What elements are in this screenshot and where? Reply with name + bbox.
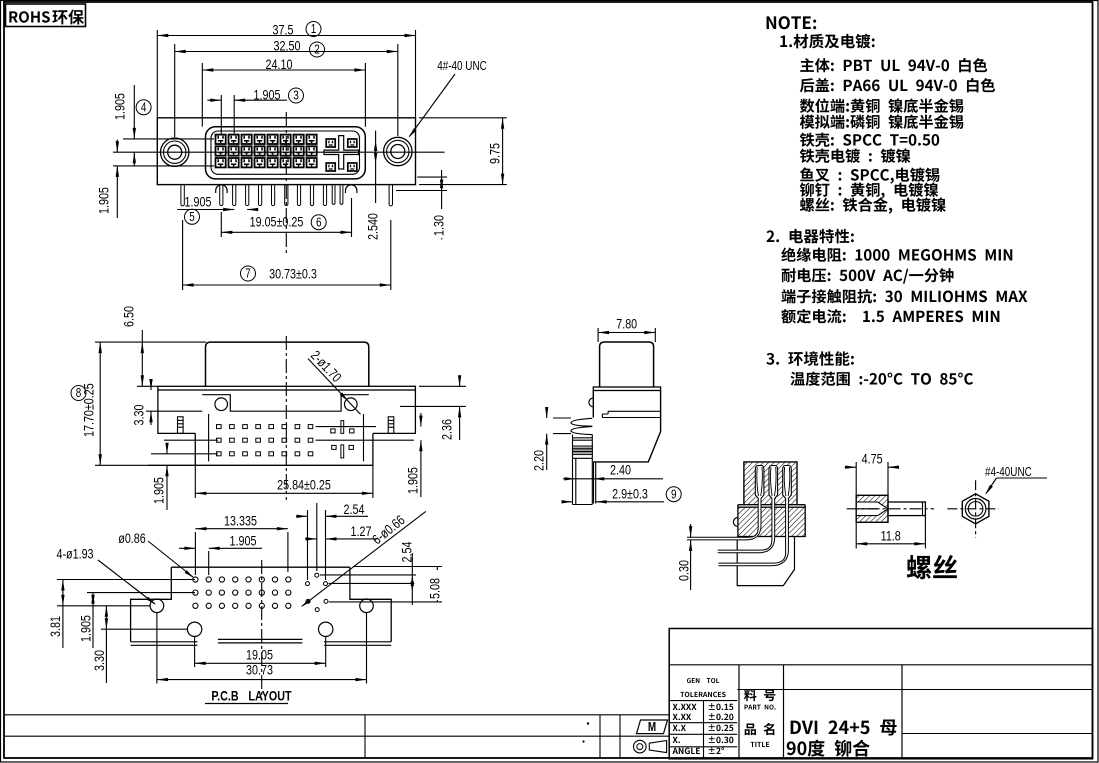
- dim 1.905 circ4: [123, 138, 214, 140]
- note line: [800, 133, 939, 147]
- svg-text:3.81: 3.81: [48, 616, 64, 637]
- D-sub shell outer: [206, 127, 366, 179]
- dim 1.905 pcb left: [92, 593, 94, 648]
- pcb analog holes: [315, 573, 319, 577]
- note line: [781, 309, 999, 324]
- svg-text:1.905: 1.905: [151, 477, 167, 504]
- pcb bottom right wing: [324, 641, 391, 643]
- side fork shank: [573, 435, 593, 505]
- svg-text:1.905: 1.905: [96, 187, 112, 214]
- ROHS text: [9, 11, 49, 23]
- note 2: [767, 229, 854, 244]
- svg-text:30.73: 30.73: [246, 662, 273, 678]
- note line: [800, 149, 911, 163]
- svg-text:1.905: 1.905: [254, 87, 281, 103]
- svg-text:2.54: 2.54: [399, 541, 415, 562]
- svg-text:6.50: 6.50: [121, 306, 137, 327]
- dim 2-d1.70: [308, 359, 361, 415]
- stray dots: [587, 722, 589, 724]
- analog pins front: [332, 185, 335, 205]
- side flange: [593, 387, 660, 391]
- boardlock pin right: [389, 185, 392, 206]
- svg-text:25.84±0.25: 25.84±0.25: [277, 477, 331, 493]
- dim 5.08: [436, 567, 438, 602]
- M symbol: [637, 720, 668, 734]
- dim 1.27: [305, 538, 317, 540]
- dim 2.54 top: [307, 510, 309, 580]
- pcb centre line: [261, 560, 263, 700]
- caption luosi: [907, 555, 957, 579]
- note 1: [780, 34, 874, 49]
- dim 2.54 right: [411, 553, 413, 605]
- note line: [781, 247, 1012, 261]
- screw head: [856, 495, 888, 522]
- digital contact grid: [216, 135, 226, 144]
- dim 1.30: [417, 176, 447, 178]
- screw shank: [888, 502, 925, 516]
- section bump: [733, 518, 738, 527]
- svg-text:9.75: 9.75: [487, 143, 503, 164]
- title block horizontals: [669, 664, 1092, 666]
- pcb row ext lines: [57, 579, 195, 581]
- svg-text:LAYOUT: LAYOUT: [248, 688, 292, 704]
- dim 30.73: [182, 220, 184, 290]
- dim 32.50: [174, 44, 176, 137]
- tolerance header: [687, 678, 719, 683]
- title block outline: [669, 629, 1092, 759]
- svg-text:5.08: 5.08: [427, 578, 443, 599]
- label 6-d0.66: [302, 511, 426, 606]
- rear body right ear: [373, 390, 416, 433]
- pcb big holes 4-d1.93: [150, 599, 164, 613]
- pcb right ext lines: [353, 566, 442, 568]
- svg-text:P.C.B: P.C.B: [211, 688, 238, 704]
- svg-text:1.905: 1.905: [112, 93, 128, 120]
- dim 1.905 lower-left: [116, 140, 118, 153]
- svg-text:3.30: 3.30: [131, 404, 147, 425]
- dim 3.30 pcb: [105, 606, 107, 683]
- dim 7.80: [597, 328, 599, 342]
- note 3: [766, 351, 853, 366]
- svg-text:11.8: 11.8: [881, 528, 901, 544]
- svg-text:4-ø1.93: 4-ø1.93: [56, 546, 93, 562]
- fork dome right: [346, 185, 357, 193]
- rear inner steps: [208, 414, 210, 461]
- pcb outline: [131, 567, 392, 642]
- rear rivet right: [388, 417, 394, 434]
- svg-text:2.20: 2.20: [531, 450, 547, 471]
- rear back cover: [206, 342, 369, 387]
- dim 13.335: [194, 532, 196, 575]
- dim 4.75: [855, 462, 857, 495]
- svg-text:3: 3: [293, 90, 299, 103]
- svg-text:4.75: 4.75: [862, 451, 883, 467]
- front view left mounting hole: [161, 138, 189, 166]
- section pins bent: [687, 498, 760, 539]
- section lower body: [737, 537, 794, 586]
- dim 3.81: [62, 580, 64, 649]
- svg-text:13.335: 13.335: [224, 513, 257, 529]
- side latch bump: [589, 398, 593, 407]
- dim 2.40: [563, 478, 663, 480]
- dim 2.20: [553, 417, 571, 419]
- hex nut end view: [962, 494, 989, 524]
- dim 11.8: [855, 522, 857, 548]
- dim 1.905 pcb: [208, 551, 210, 575]
- dim 19.05 pcb: [194, 637, 196, 667]
- product name: [791, 720, 897, 736]
- svg-text:2.54: 2.54: [344, 502, 365, 518]
- side fork inner line: [575, 458, 577, 504]
- svg-text:32.50: 32.50: [274, 38, 301, 54]
- svg-text:2.9±0.3: 2.9±0.3: [612, 486, 648, 502]
- dim 25.84: [194, 465, 196, 498]
- svg-text:2.40: 2.40: [610, 462, 631, 478]
- hole centre line: [113, 151, 445, 153]
- dim 6.50: [137, 385, 158, 387]
- side pcb slot: [602, 411, 660, 417]
- boardlock pin left: [181, 185, 184, 206]
- side cap: [600, 342, 654, 387]
- dim 30.73 pcb: [156, 613, 158, 684]
- pcb bottom centre: [218, 638, 303, 640]
- rear lower body: [195, 433, 373, 465]
- dim 37.5: [156, 30, 158, 118]
- ROHS label box: [6, 4, 86, 27]
- note line: [781, 289, 1027, 304]
- svg-text:1.905: 1.905: [78, 615, 94, 642]
- analog cross: [324, 136, 358, 169]
- section lower block: [738, 507, 805, 536]
- svg-text:2.540: 2.540: [365, 213, 381, 240]
- tol rows: [673, 704, 697, 710]
- note line: [782, 268, 954, 284]
- dim 1.905 rear left: [148, 464, 195, 466]
- svg-text:8: 8: [76, 387, 82, 400]
- rear flange strip: [158, 386, 416, 390]
- dim 2.9: [564, 501, 573, 503]
- rear analog slots: [341, 421, 344, 434]
- svg-text:7: 7: [245, 268, 251, 281]
- screw centre line: [847, 508, 934, 510]
- svg-text:5: 5: [189, 211, 195, 224]
- svg-text:19.05±0.25: 19.05±0.25: [250, 214, 304, 230]
- rear centre line: [285, 336, 287, 500]
- side body: [593, 391, 660, 462]
- note line: [800, 98, 964, 113]
- dim 1.905 circ5: [177, 209, 226, 211]
- tolerance table: [669, 700, 737, 702]
- svg-text:M: M: [648, 721, 656, 734]
- note line: [800, 78, 995, 92]
- svg-text:24.10: 24.10: [266, 57, 293, 73]
- dim 3.30: [146, 410, 202, 412]
- rear recess outline: [202, 395, 368, 412]
- rear nut right: [345, 398, 358, 411]
- rear body left ear: [158, 390, 195, 433]
- rear row ext lines right: [316, 426, 376, 428]
- analog contacts: [326, 139, 335, 147]
- signal pins: [220, 185, 223, 206]
- dim 9.75: [419, 117, 507, 119]
- dim 1.905 rear right: [420, 413, 422, 427]
- svg-text:6: 6: [316, 216, 322, 229]
- rear row ext lines left: [164, 439, 218, 441]
- side pin: [593, 462, 595, 504]
- svg-text:3.30: 3.30: [92, 650, 108, 671]
- side fork ribs: [573, 437, 593, 439]
- svg-text:30.73±0.3: 30.73±0.3: [269, 266, 317, 282]
- svg-text:0.30: 0.30: [676, 560, 692, 581]
- note line: [800, 167, 939, 183]
- note line: [800, 183, 938, 199]
- svg-text:7.80: 7.80: [616, 316, 637, 332]
- note line: [800, 114, 964, 128]
- rear pin hole grid: [217, 425, 222, 429]
- rear nut left: [215, 398, 228, 411]
- svg-text:1.905: 1.905: [185, 194, 212, 210]
- dim 2.36: [419, 385, 466, 387]
- dim 2.540: [375, 131, 377, 240]
- dim 0.30: [690, 524, 692, 537]
- pcb grid holes: [193, 577, 198, 582]
- svg-text:4#-40 UNC: 4#-40 UNC: [437, 60, 486, 73]
- rear rivet left: [178, 417, 184, 434]
- svg-text:17.70±0.25: 17.70±0.25: [81, 383, 97, 437]
- svg-text:1: 1: [311, 23, 317, 36]
- projection symbol: [634, 740, 647, 753]
- svg-text:1.30: 1.30: [431, 215, 447, 236]
- dim 24.10: [201, 63, 203, 127]
- dim 1.905 grid pitch: [220, 95, 222, 134]
- side fork leaves: [571, 418, 592, 426]
- note line: [800, 58, 987, 72]
- svg-text:ø0.86: ø0.86: [118, 531, 146, 547]
- dim 17.70: [95, 341, 206, 343]
- rear analog holes: [331, 429, 335, 433]
- pcb bottom left wing: [131, 641, 198, 643]
- dim 19.05: [220, 212, 222, 237]
- note line: [790, 371, 973, 385]
- title block verticals: [738, 665, 740, 759]
- title label: [745, 723, 775, 735]
- bottom strip rows: [4, 714, 669, 716]
- section upper block: [744, 462, 797, 505]
- svg-text:1.905: 1.905: [230, 533, 257, 549]
- front view right mounting hole: [384, 137, 412, 165]
- svg-text:2: 2: [314, 44, 320, 57]
- svg-text:9: 9: [671, 488, 677, 501]
- fork dome left: [216, 185, 227, 193]
- front centre line: [285, 112, 287, 253]
- svg-text:1.27: 1.27: [351, 524, 372, 540]
- D-sub shell inner: [211, 131, 360, 174]
- svg-text:4: 4: [141, 101, 147, 114]
- note line: [800, 197, 946, 213]
- front view flange: [157, 118, 415, 185]
- note title: [767, 16, 817, 29]
- svg-text:#4-40UNC: #4-40UNC: [985, 466, 1032, 479]
- svg-text:1.905: 1.905: [405, 467, 421, 494]
- svg-text:19.05: 19.05: [246, 647, 273, 663]
- svg-text:37.5: 37.5: [273, 22, 294, 38]
- svg-text:2.36: 2.36: [439, 419, 455, 440]
- part no label: [744, 689, 775, 701]
